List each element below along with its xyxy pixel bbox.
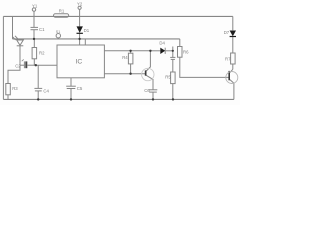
node C7 top [172, 50, 174, 52]
junction node dots [33, 38, 174, 101]
IC bottom pin wire [70, 78, 72, 86]
capacitor C5 [66, 85, 76, 87]
transistor Q2 emitter [230, 80, 234, 100]
diode D7 wire bottom [232, 37, 234, 53]
diode D7 body [230, 31, 236, 37]
wire top rail [3, 15, 232, 17]
wire C5 to rail [70, 89, 72, 100]
button S1 [56, 34, 60, 38]
capacitor C7 plates [170, 56, 175, 58]
wire R4 to pin2 [130, 64, 132, 74]
wire IC top stub 2 [84, 39, 86, 45]
diode D1 wire top [79, 16, 81, 26]
svg-text:IC: IC [76, 58, 83, 65]
wire Y1 to C1 [33, 16, 35, 27]
svg-text:R7: R7 [225, 57, 231, 62]
svg-text:C5: C5 [77, 86, 83, 91]
wire R5 to rail [172, 84, 174, 100]
svg-text:Y2: Y2 [77, 1, 83, 6]
photodiode VD body [17, 40, 24, 45]
photodiode VD arrows [13, 37, 16, 40]
transistor Q1 circle [142, 68, 154, 80]
wire R3 branch [8, 65, 20, 83]
node R5-rail [172, 98, 174, 100]
resistor R6 [178, 47, 183, 58]
diode D1 wire bottom [79, 34, 81, 39]
diode D1 body [77, 26, 83, 33]
wire rail to R6 [179, 39, 181, 47]
node C6-rail [152, 98, 154, 100]
IC pin2 wire right [104, 73, 145, 75]
wire C6 to rail [152, 92, 154, 99]
wire mid rail [13, 38, 180, 40]
svg-text:R1: R1 [59, 9, 65, 14]
transistor Q1 emitter [146, 75, 153, 89]
wire node to C4 [37, 65, 39, 88]
transistor Q1 base bar [145, 70, 147, 75]
wire IC top stub 1 [79, 39, 81, 45]
photodiode VD bottom lead [19, 46, 21, 65]
svg-text:D4: D4 [159, 40, 165, 45]
diode D4 cathode bar [164, 48, 166, 54]
wire S1 stub [57, 38, 59, 39]
capacitor C4 [34, 87, 42, 89]
node C5-rail [70, 98, 72, 100]
diode D4 wire [150, 50, 160, 52]
wire rail to R2 [33, 39, 35, 48]
resistor R7 [231, 53, 236, 64]
wire C7 to R5 [172, 60, 174, 72]
terminal Y2 [78, 6, 81, 9]
transistor Q1 collector [146, 51, 150, 71]
wire Y1 stub [33, 11, 35, 16]
svg-text:C1: C1 [39, 27, 45, 32]
svg-text:S1: S1 [56, 30, 60, 34]
svg-text:R2: R2 [39, 51, 45, 56]
capacitor C6 [149, 89, 158, 91]
wire R3 to rail [7, 95, 9, 100]
svg-text:C4: C4 [43, 89, 49, 94]
svg-text:R3: R3 [12, 86, 18, 91]
diode D4 body [160, 48, 165, 54]
resistor R2 [32, 48, 37, 59]
wire Y2 stub [79, 9, 81, 16]
resistor R4 [128, 53, 133, 64]
node R2-C2 [35, 64, 37, 66]
node D1-rail [78, 38, 80, 40]
IC pin1 wire right [104, 50, 149, 52]
wire photodiode drop from top rail [12, 16, 14, 39]
terminal Y1 [32, 8, 35, 11]
resistor R1 (series box on top wire) [54, 14, 69, 17]
wire R2 to node [33, 59, 35, 65]
node R4 bottom [129, 73, 131, 75]
node R4 top [129, 50, 131, 52]
transistor Q2 circle [226, 72, 238, 84]
resistor R3 [6, 84, 11, 95]
node Q1 collector [149, 50, 151, 52]
wire C2 to IC left pin [36, 64, 57, 66]
wire C4 to rail [37, 91, 39, 100]
transistor Q2 collector [230, 69, 233, 72]
svg-text:C6: C6 [144, 88, 150, 93]
IC box U1 [57, 45, 104, 78]
node C4-rail [37, 98, 39, 100]
capacitor C1 [31, 26, 39, 28]
wire bottom rail [3, 98, 234, 100]
svg-text:Y1: Y1 [32, 4, 38, 9]
wire pin1 to R4 [130, 51, 132, 53]
capacitor C7 stub top [172, 47, 174, 58]
node C1-rail [33, 38, 35, 40]
svg-text:C2: C2 [15, 64, 21, 69]
wire C1 to rail [33, 30, 35, 39]
svg-text:D1: D1 [84, 28, 90, 33]
wire left border [2, 16, 4, 99]
capacitor C2 plus mark [22, 59, 24, 61]
capacitor C2 plates [23, 61, 25, 68]
resistor R5 [171, 72, 176, 84]
wire R6 down to Q2 base [180, 57, 229, 77]
transistor Q2 base bar [228, 71, 230, 80]
svg-text:R6: R6 [183, 50, 189, 55]
svg-text:R5: R5 [165, 75, 171, 80]
wire right border top [232, 16, 234, 30]
svg-text:D7: D7 [224, 30, 230, 35]
svg-text:R4: R4 [122, 55, 128, 60]
wire R7 to Q2 collector [232, 64, 234, 69]
wire C2 row [20, 64, 24, 66]
